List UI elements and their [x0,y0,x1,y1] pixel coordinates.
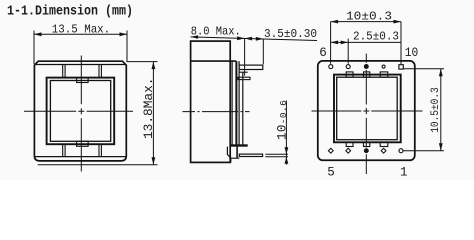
svg-text:3.5±0.30: 3.5±0.30 [264,27,317,41]
svg-text:10.5±0.3: 10.5±0.3 [430,87,442,133]
svg-text:13.5 Max.: 13.5 Max. [52,23,110,37]
svg-text:5: 5 [327,166,335,180]
svg-text:1-1.Dimension (mm): 1-1.Dimension (mm) [7,4,133,20]
svg-text:13.8Max.: 13.8Max. [142,78,156,140]
svg-text:10±0.3: 10±0.3 [346,9,392,23]
svg-text:10-0.6: 10-0.6 [276,100,290,140]
svg-text:2.5±0.3: 2.5±0.3 [353,30,399,44]
svg-text:1: 1 [400,166,408,180]
svg-text:6: 6 [319,46,327,60]
svg-text:10: 10 [405,46,419,60]
svg-text:8.0 Max.: 8.0 Max. [191,24,241,38]
